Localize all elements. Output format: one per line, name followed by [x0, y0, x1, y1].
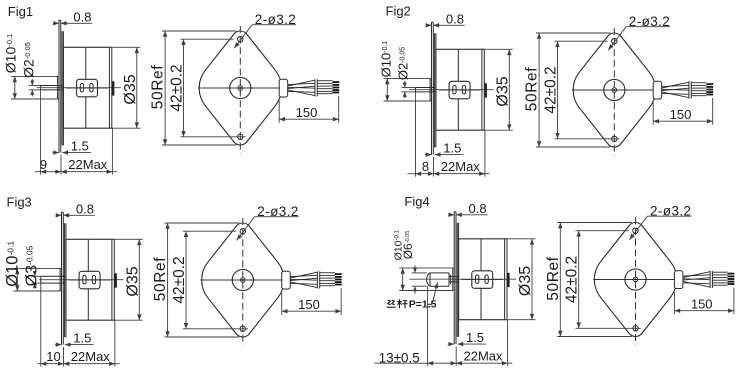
- Fig2 dimension shaft diameter: [404, 81, 406, 88]
- Fig2 side view: terminal block: [449, 81, 470, 99]
- Fig3 dimension 1.5 flange stack: [55, 344, 61, 346]
- Fig1 dimension 0.8 bracket thickness: [55, 22, 59, 24]
- Fig4 side view: lead screw end face: [448, 273, 450, 286]
- Fig2 dimension 150 wire length: [652, 103, 654, 125]
- Fig2 side view: rear cap: [481, 49, 483, 130]
- Fig1 front view: connector boot: [279, 79, 288, 97]
- Fig1 side view: output shaft: [41, 85, 63, 87]
- Fig4 side view: block centerline: [461, 279, 503, 281]
- Fig4 front view: wire bundle: [712, 271, 727, 273]
- Fig2 front view: wire band: [688, 81, 690, 98]
- Fig1 side view: body section line: [85, 47, 87, 79]
- Fig1 front view: bottom mounting hole: [238, 134, 243, 139]
- Fig2 front view: horizontal centerline: [572, 89, 662, 91]
- svg-text:8: 8: [422, 159, 429, 174]
- Fig4 front view: bare wire ends: [728, 273, 735, 275]
- svg-text:150: 150: [298, 297, 320, 312]
- Fig4 side view: screw extension lines: [412, 272, 427, 274]
- Fig4 dimension 13&#177;0.5 shaft length: [428, 361, 434, 365]
- Fig4 dimension 1.5 flange stack: [448, 343, 454, 345]
- Fig2 front view: shaft circle: [612, 88, 617, 93]
- Fig1 dimension Ø35 body: [63, 46, 140, 48]
- svg-text:Fig2: Fig2: [386, 3, 411, 18]
- Fig1 side view: motor flange ears edge view: [61, 31, 63, 144]
- Fig2 front view: top mounting hole: [612, 39, 617, 44]
- Fig3 side view: mounting bracket plate: [61, 212, 63, 344]
- svg-text:50Ref: 50Ref: [524, 67, 541, 111]
- Fig4 side view: rear cap: [504, 239, 506, 320]
- svg-text:Fig1: Fig1: [8, 4, 33, 19]
- Fig1 side view: shaft extension lines for diameter dim: [29, 85, 41, 87]
- Fig3 dimension 50Ref overall: [165, 222, 240, 224]
- Fig4 side view: motor flange ears edge view: [456, 223, 458, 336]
- svg-text:1.5: 1.5: [71, 138, 89, 153]
- Fig2 dimension 0.8 bracket thickness: [427, 24, 431, 26]
- Fig4 front view: horizontal centerline: [593, 279, 683, 281]
- Fig3 dimension chain baseline: [40, 283, 42, 367]
- Fig4 side view: mounting bracket plate: [453, 212, 455, 344]
- svg-text:0.8: 0.8: [446, 11, 464, 26]
- Fig2 front view: wire bundle: [691, 82, 706, 84]
- Fig3 front view: bottom mounting hole: [240, 326, 245, 331]
- Fig1 front view: flange outline: [199, 31, 281, 145]
- Fig4 side view: rear hub: [507, 273, 510, 287]
- svg-text:42±0.2: 42±0.2: [171, 256, 188, 303]
- Fig2 front view: pilot circle: [604, 79, 625, 100]
- Fig1 front view: wire band: [314, 79, 316, 96]
- Fig3 front view: vertical centerline: [242, 218, 244, 346]
- svg-text:Fig3: Fig3: [7, 195, 32, 210]
- svg-text:150: 150: [691, 297, 713, 312]
- Fig1 dimension 22Max body length: [61, 170, 67, 174]
- svg-text:Ø35: Ø35: [122, 74, 139, 104]
- Fig2 dimension chain baseline: [415, 92, 417, 177]
- svg-text:1.5: 1.5: [466, 330, 484, 345]
- Fig3 side view: shaft extension lines for diameter dim: [32, 275, 41, 277]
- Fig3 side view: body section line: [87, 239, 89, 271]
- Fig4 side view: front pilot boss: [452, 268, 454, 291]
- Fig3 side view: motor flange ears edge view: [64, 223, 66, 336]
- Fig4 side view: lead screw cylinder: [427, 273, 449, 286]
- Fig1 dimension 150 wire length: [278, 101, 280, 123]
- Fig4 dimension chain baseline: [427, 286, 429, 366]
- svg-text:150: 150: [670, 107, 692, 122]
- svg-text:0.8: 0.8: [76, 201, 94, 216]
- Fig1 dimension 1.5 flange stack: [53, 152, 59, 154]
- Fig4 side view: terminal slot left: [476, 275, 479, 283]
- Fig3 dimension 42±0.2 hole pitch: [183, 230, 236, 232]
- Fig3 front view: flange outline: [202, 223, 284, 337]
- Fig3 side view: terminal slot right: [92, 276, 95, 284]
- Fig4 lead screw pitch note 丝杆P=1.5: [387, 298, 437, 310]
- svg-text:13±0.5: 13±0.5: [379, 351, 420, 366]
- Fig3 front view: connector boot: [282, 271, 291, 289]
- Fig3 side view: boss extension lines: [14, 267, 62, 269]
- svg-text:0.8: 0.8: [73, 9, 91, 24]
- Fig4 front view: vertical centerline: [635, 218, 637, 346]
- Fig4 front view: pilot circle: [625, 269, 646, 290]
- svg-text:0.8: 0.8: [469, 201, 487, 216]
- svg-text:9: 9: [40, 157, 47, 172]
- svg-text:Ø35: Ø35: [124, 266, 141, 296]
- Fig3 front view: wire band: [316, 271, 318, 288]
- Fig1 side view: boss extension lines: [11, 75, 59, 77]
- svg-text:Fig4: Fig4: [404, 194, 429, 209]
- Fig3 side view: output shaft: [41, 275, 66, 277]
- Fig1 front view: wire bundle: [317, 80, 332, 82]
- svg-text:150: 150: [296, 105, 318, 120]
- Fig1 dimension shaft diameter: [31, 79, 33, 86]
- svg-text:42±0.2: 42±0.2: [564, 256, 581, 303]
- Fig3 front view: bare wire ends: [335, 273, 342, 275]
- Fig2 side view: terminal slot right: [462, 86, 465, 94]
- Fig2 side view: front pilot boss: [429, 78, 431, 101]
- Fig1 side view: rear hub: [112, 81, 115, 95]
- Fig2 side view: body section line: [457, 49, 459, 81]
- Fig1 side view: rear cap: [108, 47, 110, 128]
- Fig1 front view: top mounting hole: [238, 37, 243, 42]
- Fig2 side view: output shaft: [416, 87, 436, 89]
- svg-text:42±0.2: 42±0.2: [542, 66, 559, 113]
- Fig2 dimension Ø35 body: [436, 48, 513, 50]
- Fig2 side view: motor flange ears edge view: [434, 33, 436, 146]
- Fig4 front view: bottom mounting hole: [633, 326, 638, 331]
- svg-text:50Ref: 50Ref: [545, 256, 562, 300]
- Fig1 front view: vertical centerline: [239, 26, 241, 154]
- Fig4 front view: wire fan: [683, 275, 710, 276]
- Fig3 side view: rear hub: [114, 273, 117, 287]
- Fig4 pitch note leader arrow: [427, 303, 432, 305]
- Fig1 side view: terminal slot right: [90, 84, 93, 92]
- Fig4 dimension 22Max body length: [456, 361, 462, 365]
- svg-text:50Ref: 50Ref: [152, 257, 169, 301]
- Fig3 dimension 22Max body length: [64, 362, 70, 366]
- Fig4 dimension Ø6 lead screw: [414, 265, 416, 273]
- Fig1 front view: pilot circle: [230, 77, 251, 98]
- Fig2 side view: rear hub: [484, 83, 487, 97]
- Fig3 side view: terminal block: [79, 271, 100, 289]
- Fig2 front view: connector boot: [653, 81, 662, 99]
- Fig2 dimension Ø10 boss: [386, 78, 388, 101]
- Fig4 front view: top mounting hole: [633, 228, 638, 233]
- Fig3 front view: horizontal centerline: [201, 279, 291, 281]
- Fig2 front view: bare wire ends: [706, 83, 713, 85]
- svg-text:50Ref: 50Ref: [150, 65, 167, 109]
- Fig1 side view: mounting bracket plate: [58, 20, 60, 152]
- Fig1 dimension 42±0.2 hole pitch: [180, 38, 233, 40]
- Fig4 dimension 150 wire length: [673, 292, 675, 314]
- Fig3 side view: shaft centerline: [39, 279, 124, 281]
- svg-text:1.5: 1.5: [443, 140, 461, 155]
- Fig3 side view: block centerline: [69, 279, 111, 281]
- Fig3 side view: motor body: [66, 239, 114, 320]
- Fig2 dimension 8 shaft length: [416, 172, 422, 176]
- svg-text:22Max: 22Max: [71, 349, 111, 364]
- Fig2 dimension 50Ref overall: [536, 32, 611, 34]
- Fig2 front view: flange outline: [573, 33, 655, 147]
- Fig1 side view: block centerline: [66, 87, 108, 89]
- Fig4 side view: lead screw cap line: [429, 273, 431, 286]
- Fig4 side view: screw centerline: [409, 278, 516, 280]
- Fig2 front view: bottom mounting hole: [612, 136, 617, 141]
- Fig4 side view: terminal block: [472, 271, 493, 289]
- Fig4 dimension 0.8 bracket thickness: [450, 214, 454, 216]
- Fig1 side view: motor body: [63, 47, 111, 128]
- Fig3 dimension Ø35 body: [66, 238, 143, 240]
- Fig1 dimension chain baseline: [40, 90, 42, 175]
- Fig1 dimension Ø10 boss: [14, 76, 16, 99]
- Fig3 dimension 0.8 bracket thickness: [57, 214, 61, 216]
- svg-text:Ø35: Ø35: [494, 76, 511, 106]
- svg-text:22Max: 22Max: [441, 159, 481, 174]
- Fig1 dimension 9 shaft length: [41, 170, 47, 174]
- Fig2 side view: mounting bracket plate: [431, 22, 433, 154]
- Fig1 dimension 50Ref overall: [162, 30, 237, 32]
- Fig2 dimension 22Max body length: [434, 172, 440, 176]
- Fig2 dimension 42±0.2 hole pitch: [554, 40, 607, 42]
- svg-text:22Max: 22Max: [463, 348, 503, 363]
- Fig1 front view: horizontal centerline: [198, 87, 288, 89]
- Fig1 front view: bare wire ends: [332, 81, 339, 83]
- Fig4 front view: connector boot: [674, 271, 683, 289]
- Fig3 side view: front pilot boss: [59, 268, 61, 291]
- Fig4 side view: boss extension lines: [399, 267, 454, 269]
- Fig3 side view: terminal slot left: [83, 276, 86, 284]
- Fig3 side view: rear cap: [111, 239, 113, 320]
- Fig2 dimension 1.5 flange stack: [425, 154, 431, 156]
- svg-text:22Max: 22Max: [68, 157, 108, 172]
- Fig3 front view: pilot circle: [232, 269, 253, 290]
- Fig4 side view: motor body: [459, 239, 507, 320]
- Fig4 front view: shaft circle: [633, 277, 638, 282]
- Fig2 side view: shaft extension lines for diameter dim: [402, 87, 416, 89]
- Fig4 side view: terminal slot right: [485, 275, 488, 283]
- Fig4 dimension Ø10 boss: [402, 268, 404, 291]
- Fig3 dimension Ø10 boss: [16, 268, 18, 291]
- Fig2 side view: terminal slot left: [453, 86, 456, 94]
- Fig4 side view: body section line: [480, 239, 482, 271]
- Fig2 side view: block centerline: [439, 89, 481, 91]
- Fig1 side view: front pilot boss: [57, 76, 59, 99]
- Fig3 front view: shaft circle: [241, 278, 246, 283]
- Fig3 front view: wire fan: [290, 275, 317, 276]
- Fig4 front view: flange outline: [594, 222, 676, 336]
- svg-text:10: 10: [46, 349, 60, 364]
- Fig4 dimension 50Ref overall: [557, 222, 632, 224]
- Fig1 side view: shaft centerline: [37, 87, 122, 89]
- Fig2 side view: boss extension lines: [384, 77, 432, 79]
- Fig1 front view: shaft circle: [238, 86, 243, 91]
- Fig3 front view: wire bundle: [320, 272, 335, 274]
- Fig2 side view: shaft centerline: [409, 89, 494, 91]
- Fig1 side view: terminal block: [77, 79, 98, 97]
- Fig2 front view: wire fan: [662, 85, 689, 86]
- svg-text:1.5: 1.5: [73, 330, 91, 345]
- Fig4 dimension Ø35 body: [459, 238, 536, 240]
- Fig3 dimension 150 wire length: [281, 293, 283, 315]
- Fig3 dimension 10 shaft length: [41, 362, 47, 366]
- Fig2 side view: motor body: [436, 49, 484, 130]
- Fig2 front view: vertical centerline: [613, 28, 615, 156]
- svg-text:Ø35: Ø35: [517, 266, 534, 296]
- Fig1 side view: terminal slot left: [80, 84, 83, 92]
- Fig4 front view: wire band: [709, 271, 711, 288]
- Fig4 dimension 42±0.2 hole pitch: [576, 230, 629, 232]
- Fig3 front view: top mounting hole: [240, 229, 245, 234]
- Fig4 side view: shaft stub to flange: [449, 276, 458, 278]
- svg-text:42±0.2: 42±0.2: [168, 64, 185, 111]
- Fig3 dimension shaft diameter: [34, 271, 36, 276]
- Fig1 front view: wire fan: [288, 83, 315, 84]
